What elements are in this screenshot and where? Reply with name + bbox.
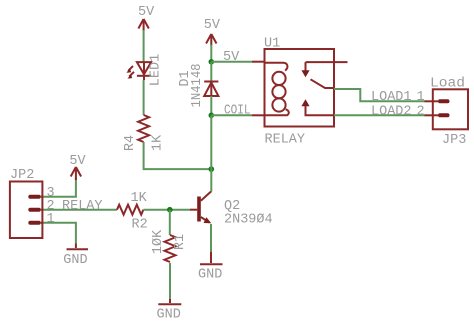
svg-text:JP2: JP2: [10, 168, 34, 183]
svg-text:2N39Ø4: 2N39Ø4: [224, 213, 273, 228]
wire R4 bottom to collector net: [144, 142, 212, 169]
svg-text:R1: R1: [173, 234, 188, 250]
wire 5V arrow to node: [210, 45, 212, 62]
svg-text:U1: U1: [264, 37, 280, 52]
relay common contact line and pin stub: [301, 62, 347, 77]
svg-text:LOAD1: LOAD1: [371, 90, 412, 105]
relay coil winding: [265, 63, 289, 116]
svg-text:2: 2: [417, 104, 425, 119]
svg-text:RELAY: RELAY: [265, 133, 306, 148]
svg-text:5V: 5V: [138, 5, 155, 20]
wire node to D1 cathode: [210, 62, 212, 81]
JP3 pin 1 pad: [425, 99, 450, 103]
svg-text:5V: 5V: [69, 154, 86, 169]
svg-text:1N4148: 1N4148: [190, 64, 205, 108]
wire D1 anode to coil node: [210, 96, 212, 115]
svg-text:R2: R2: [132, 218, 148, 233]
ground symbol (R1): [158, 303, 181, 305]
svg-text:COIL: COIL: [224, 104, 251, 119]
connector JP2 box: [10, 182, 43, 239]
svg-text:RELAY: RELAY: [62, 199, 103, 214]
svg-text:1K: 1K: [151, 134, 166, 151]
wire collector to node: [210, 169, 212, 191]
JP2 pin 3 pad: [28, 195, 43, 199]
svg-text:GND: GND: [157, 308, 181, 323]
power symbol 5V arrow (D1 branch): [206, 34, 216, 46]
relay NO contact with up arrow: [301, 99, 334, 115]
svg-text:LED1: LED1: [148, 54, 163, 86]
svg-text:1: 1: [47, 212, 55, 227]
power symbol 5V arrow (JP2): [71, 167, 81, 180]
svg-text:5V: 5V: [204, 18, 221, 33]
wire 5V node to relay coil pin 1: [211, 61, 252, 63]
svg-text:JP3: JP3: [442, 133, 466, 148]
power symbol 5V arrow (LED branch): [138, 19, 148, 31]
JP3 pin 2 pad: [425, 113, 450, 117]
wire R2 to base node: [144, 209, 191, 211]
resistor R2: [117, 205, 143, 215]
svg-text:LOAD2: LOAD2: [371, 104, 412, 119]
wire LED1 cathode to R4: [143, 62, 145, 80]
wire base stub: [190, 209, 197, 211]
node COIL junction: [209, 113, 215, 119]
JP2 pin 2 pad: [28, 208, 43, 212]
wire 5V to LED1 anode: [143, 30, 145, 62]
ground symbol (Q2): [200, 263, 223, 265]
wire JP2 pin 1 to GND: [44, 223, 76, 244]
node D1 cathode junction: [209, 59, 215, 65]
resistor R4: [138, 115, 149, 142]
svg-text:5V: 5V: [223, 50, 240, 65]
svg-text:GND: GND: [63, 253, 87, 268]
svg-text:1: 1: [417, 90, 425, 105]
node base junction: [167, 207, 173, 213]
svg-text:1K: 1K: [131, 191, 148, 206]
wire relay common to LOAD1: [334, 89, 425, 101]
diode LED1: [126, 62, 151, 79]
wire base node to R1: [169, 210, 171, 235]
wire emitter to GND: [210, 224, 212, 252]
svg-text:GND: GND: [198, 268, 222, 283]
relay movable contact arm: [311, 79, 335, 88]
wire JP2 pin 3 to 5V: [44, 178, 76, 197]
svg-text:1ØK: 1ØK: [151, 229, 166, 254]
wire relay NO to LOAD2: [334, 114, 425, 116]
node collector junction: [209, 166, 215, 172]
wire JP2 pin 2 to R2 (net RELAY): [44, 209, 118, 211]
wire COIL node to relay coil pin 2: [211, 114, 252, 116]
wire COIL node down to collector node: [210, 115, 212, 169]
ground symbol (JP2): [67, 248, 89, 250]
resistor R1: [165, 235, 176, 262]
svg-text:R4: R4: [123, 135, 138, 151]
connector JP3 box: [433, 89, 468, 129]
relay U1 box: [265, 49, 335, 127]
transistor Q2: [197, 191, 211, 223]
wire R1 to GND: [169, 263, 171, 299]
JP2 pin 1 pad: [28, 221, 43, 225]
diode D1: [204, 82, 218, 97]
svg-text:Load: Load: [430, 77, 465, 92]
